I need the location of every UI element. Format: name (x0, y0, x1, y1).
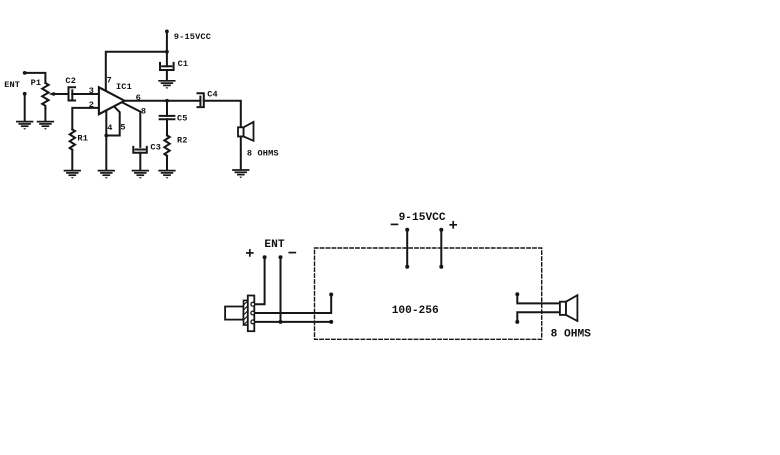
wire input bottom terminal to ground (24, 95, 26, 121)
svg-text:8 OHMS: 8 OHMS (551, 328, 592, 340)
wire R1 to ground (71, 150, 73, 170)
module 100-256 dashed box (315, 248, 542, 339)
speaker (top circuit, 8 ohms) (238, 122, 254, 141)
node VCC rail junction (165, 50, 169, 54)
plug plate (248, 296, 255, 332)
svg-text:ENT: ENT (264, 239, 284, 251)
svg-text:8: 8 (141, 106, 146, 116)
resistor R1 (70, 129, 75, 149)
supply + lead (439, 228, 443, 269)
node speaker output top (515, 292, 519, 296)
node VCC terminal (165, 30, 169, 34)
ground (C3) (133, 171, 149, 179)
plug hatched collar (244, 300, 248, 325)
wire input + to plug top pin (255, 257, 265, 304)
supply - lead (405, 228, 409, 269)
label - (input) (289, 252, 295, 254)
wire speaker to ground (240, 137, 242, 170)
svg-text:P1: P1 (31, 78, 42, 88)
plug pin 1 (top) (251, 302, 255, 306)
svg-text:5: 5 (120, 122, 125, 132)
node speaker output bottom (515, 320, 519, 324)
svg-text:7: 7 (107, 75, 112, 85)
svg-text:IC1: IC1 (116, 82, 132, 92)
capacitor C2 (69, 87, 76, 100)
svg-text:C2: C2 (65, 76, 76, 86)
plug pin 2 (middle) (251, 311, 255, 315)
svg-text:100-256: 100-256 (392, 305, 439, 317)
label + (supply) (450, 222, 456, 228)
node pin4/pin5 junction (104, 134, 108, 138)
ground (R1) (65, 171, 81, 179)
ground (P1) (38, 122, 54, 130)
wire pin 4 to ground (105, 111, 107, 170)
wire C1 to ground (166, 70, 168, 80)
plug barrel (225, 307, 243, 320)
svg-text:9-15VCC: 9-15VCC (399, 212, 446, 224)
ground (R2) (159, 171, 175, 179)
wire junction to C5 (166, 101, 168, 116)
wire C5 to R2 (166, 119, 168, 135)
wire output bottom to speaker (517, 312, 560, 322)
wire P1 wiper arrow to C2 (49, 92, 69, 96)
label - (supply) (392, 223, 398, 225)
wire input terminal to P1 top (25, 73, 46, 83)
wire pin 7 to VCC rail (106, 52, 167, 92)
capacitor C1 (160, 63, 174, 70)
node input bottom terminal (23, 92, 27, 96)
node module input a (329, 293, 333, 297)
ground (C1) (159, 81, 175, 89)
capacitor C5 (160, 116, 175, 119)
ground (top speaker) (233, 170, 249, 178)
node junction (- wire on bottom line) (279, 320, 283, 324)
resistor R2 (164, 135, 169, 155)
ground (pin 4) (99, 171, 115, 179)
wire C3 to ground (139, 153, 141, 170)
wire C2 to pin 3 (72, 93, 99, 95)
node output junction (C5 tap) (165, 99, 169, 103)
wire R2 to ground (166, 156, 168, 170)
svg-text:9-15VCC: 9-15VCC (174, 32, 211, 42)
ground (input bottom terminal) (17, 122, 33, 130)
wire pin 5 to pin 4 (106, 107, 119, 136)
label + (input) (247, 250, 253, 256)
plug pin 3 (bottom) (251, 320, 255, 324)
wire pin 2 to R1 top (72, 108, 99, 129)
node module input b (329, 320, 333, 324)
capacitor C3 (133, 147, 147, 153)
node input + terminal (263, 255, 267, 259)
svg-text:C4: C4 (207, 90, 218, 100)
wire P1 bottom to ground (44, 108, 46, 121)
wire output pin 6 to C4 (125, 100, 201, 102)
svg-text:R2: R2 (177, 135, 188, 145)
speaker (bottom diagram, 8 ohms) (560, 295, 578, 321)
svg-text:3: 3 (89, 86, 94, 96)
op-amp IC1 (99, 87, 125, 114)
wire middle pin to module (255, 296, 332, 314)
svg-text:R1: R1 (77, 134, 88, 144)
node input top terminal (23, 71, 27, 75)
svg-text:C3: C3 (150, 143, 161, 153)
svg-text:8 OHMS: 8 OHMS (247, 149, 279, 159)
node input - terminal (279, 255, 283, 259)
svg-text:2: 2 (89, 100, 94, 110)
wire C4 to speaker (204, 101, 241, 128)
svg-text:4: 4 (107, 123, 112, 133)
svg-text:C5: C5 (177, 114, 188, 124)
svg-text:6: 6 (136, 93, 141, 103)
wire bottom pin to module (255, 321, 332, 323)
wire output top to speaker (517, 294, 560, 303)
svg-text:C1: C1 (178, 59, 189, 69)
wire VCC terminal down to C1 (166, 31, 168, 66)
wire input - down to bottom pin line (280, 257, 282, 322)
potentiometer P1 (42, 83, 48, 108)
capacitor C4 (198, 93, 204, 107)
svg-text:ENT: ENT (4, 80, 20, 90)
wire pin 8 to C3 (123, 103, 141, 147)
